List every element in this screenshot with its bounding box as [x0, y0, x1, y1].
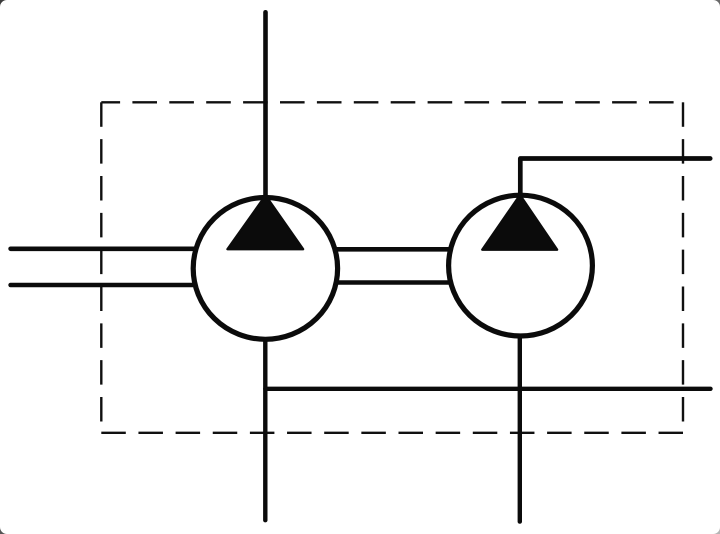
wire: lower line between pumps	[336, 280, 450, 285]
pump 2 flow-direction triangle	[482, 195, 557, 250]
page corner artifact top-right	[713, 0, 720, 7]
dashed enclosure left edge	[100, 102, 102, 433]
pump 2 circle (right)	[449, 195, 593, 336]
dashed enclosure bottom edge	[101, 432, 683, 434]
wire: upper line between pumps	[336, 247, 450, 252]
wire: pump 1 bottom drain vertical	[263, 340, 267, 520]
pump 1 flow-direction triangle	[228, 196, 304, 250]
wire: pump 2 outlet elbow to right edge	[520, 159, 710, 198]
wire: left lower port line	[11, 283, 196, 288]
page corner artifact bottom-left	[0, 527, 7, 534]
wire: top vertical line into pump 1	[263, 12, 268, 200]
pump 1 circle (left)	[193, 198, 337, 340]
wire: pump 2 bottom drain vertical	[518, 336, 522, 522]
dashed enclosure top edge	[101, 101, 683, 103]
page corner artifact bottom-right	[713, 527, 720, 534]
dashed enclosure right edge	[682, 102, 684, 433]
page corner artifact top-left	[0, 0, 7, 7]
wire: left upper port line	[11, 247, 196, 252]
wire: bottom horizontal drain line	[265, 387, 710, 391]
